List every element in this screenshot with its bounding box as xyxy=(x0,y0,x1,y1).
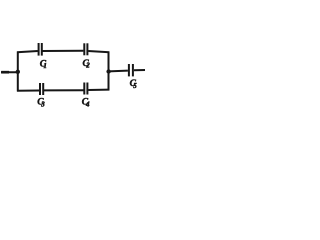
svg-text:1: 1 xyxy=(43,62,47,70)
svg-text:5: 5 xyxy=(133,82,137,90)
svg-text:2: 2 xyxy=(85,62,90,70)
svg-text:3: 3 xyxy=(40,101,45,109)
svg-text:4: 4 xyxy=(85,101,90,109)
